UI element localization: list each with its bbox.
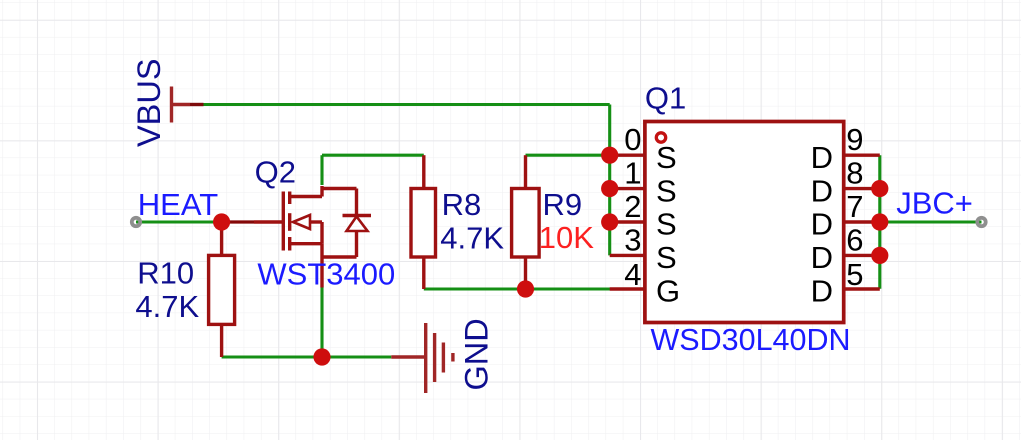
svg-text:R10: R10 [137,255,194,290]
wire VBUS horizontal [203,103,610,106]
pin 3 [610,254,644,257]
svg-text:S: S [656,207,677,242]
svg-text:S: S [656,240,677,275]
net port HEAT [132,218,140,226]
junction pin1 [601,180,618,197]
svg-text:10K: 10K [539,220,594,255]
pin 8 [845,187,880,190]
svg-text:HEAT: HEAT [138,187,218,222]
svg-text:JBC+: JBC+ [896,186,973,221]
wire JBC+ [880,220,982,223]
junction pin2 [601,213,618,230]
junction pin8 [871,180,888,197]
pin 7 [845,220,880,223]
svg-text:Q2: Q2 [255,155,296,190]
svg-text:GND: GND [459,318,495,390]
wire R9 top to pin0 [526,154,610,157]
resistor R9 [524,155,527,188]
svg-text:D: D [811,207,833,242]
pin 0 [610,153,644,156]
svg-text:S: S [656,173,677,208]
wire chip-right vertical [878,155,881,289]
svg-text:D: D [811,240,833,275]
svg-text:4.7K: 4.7K [135,289,199,324]
diode D-Q2 body [343,189,372,258]
junction HEAT/R10/Q2-gate [213,213,230,230]
svg-text:S: S [656,140,677,175]
pin 1 [610,187,644,190]
svg-text:3: 3 [624,222,641,257]
svg-text:Q1: Q1 [645,81,686,116]
pin 6 [845,254,880,257]
power flag VBUS [170,87,190,123]
pin 2 [610,220,644,223]
junction pin6 [871,247,888,264]
junction pin7/JBC+ [871,213,888,230]
wire HEAT red segment [222,220,254,223]
pin 9 [845,153,880,156]
svg-text:6: 6 [846,222,863,257]
IC Q1 body [645,122,844,323]
wire GND horizontal [222,355,392,358]
svg-text:7: 7 [846,189,863,224]
transistor Q2 [254,186,357,288]
svg-text:D: D [811,274,833,309]
junction Q2-source/GND wire [313,348,330,365]
wire chip-left vertical [608,105,611,256]
wire Q2 drain vertical [320,155,323,185]
ground [391,323,453,393]
svg-text:4: 4 [624,257,641,292]
junction R9-bottom/bottom wire [517,280,534,297]
svg-text:5: 5 [846,257,863,292]
net port JBC+ [977,218,985,226]
svg-text:4.7K: 4.7K [440,221,504,256]
svg-text:8: 8 [846,156,863,191]
svg-text:WSD30L40DN: WSD30L40DN [651,323,851,357]
pin 4 [610,287,644,290]
svg-text:WST3400: WST3400 [257,256,395,291]
svg-text:1: 1 [624,156,641,191]
wire bottom R8 to pin4 [424,287,611,290]
svg-text:D: D [811,140,833,175]
svg-text:G: G [656,274,680,309]
svg-text:R8: R8 [442,187,482,222]
svg-text:R9: R9 [543,187,583,222]
svg-text:D: D [811,173,833,208]
junction pin0/VBUS net [601,147,618,164]
resistor R10 [220,222,223,255]
pin 5 [845,287,880,290]
svg-text:2: 2 [624,189,641,224]
svg-text:0: 0 [624,122,641,157]
pin 1 indicator [656,133,665,142]
resistor R8 [422,155,425,188]
wire Q2 drain to R8 top [322,154,424,157]
svg-text:9: 9 [846,122,863,157]
wire Q2 source vertical [320,288,323,358]
wire HEAT [136,220,222,223]
svg-text:VBUS: VBUS [131,58,167,147]
